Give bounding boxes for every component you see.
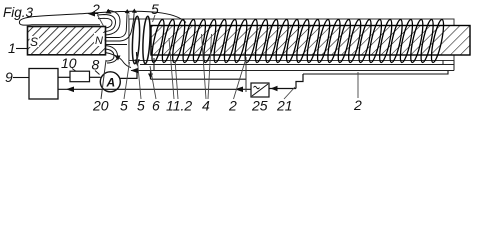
rail right edge xyxy=(453,61,455,71)
resistor 10 xyxy=(70,71,90,82)
winding end turn 5 (hairpin) xyxy=(131,16,140,64)
field lines at N pole bottom xyxy=(105,46,118,64)
svg-text:20: 20 xyxy=(92,98,109,114)
svg-text:11.2: 11.2 xyxy=(166,98,192,114)
field lines at N pole middle xyxy=(105,13,127,38)
wire ammeter right xyxy=(120,71,137,79)
svg-text:5: 5 xyxy=(120,98,128,114)
small up arrows above coil start xyxy=(125,9,130,14)
flux arrow into coil xyxy=(136,52,139,61)
svg-text:21: 21 xyxy=(276,98,293,114)
wire rail W2 xyxy=(131,70,454,72)
core bar (hatched) xyxy=(151,26,470,56)
converter box 25 xyxy=(251,83,269,97)
vertical wire to converter area (leader 2) xyxy=(245,57,247,92)
wire rail W1 xyxy=(140,64,454,66)
winding end turn 5b (hairpin) xyxy=(142,16,151,64)
svg-text:A: A xyxy=(106,76,116,90)
svg-text:2: 2 xyxy=(353,97,362,113)
wire W3 with corner arrow xyxy=(150,71,152,80)
field line big loop over magnet xyxy=(19,11,186,25)
wire rail mid-right xyxy=(303,71,448,75)
winding turns 4 xyxy=(150,19,446,64)
winding end drop right xyxy=(442,60,444,65)
svg-text:5: 5 xyxy=(137,98,145,114)
coil former tube 2 xyxy=(129,19,454,61)
svg-text:Fig.3: Fig.3 xyxy=(3,5,34,20)
svg-text:N: N xyxy=(95,35,103,47)
box 9 xyxy=(29,69,58,100)
svg-text:8: 8 xyxy=(92,57,100,73)
wire resistor to ammeter xyxy=(90,76,101,78)
svg-text:2: 2 xyxy=(228,98,237,114)
field lines at N pole top xyxy=(98,18,112,28)
wire right of box 25 with step xyxy=(269,88,296,90)
svg-text:4: 4 xyxy=(202,98,210,114)
former left edge xyxy=(128,15,130,65)
wire box9 to resistor 10 xyxy=(58,76,70,78)
svg-text:10: 10 xyxy=(61,55,77,71)
svg-text:5: 5 xyxy=(151,1,159,17)
svg-text:25: 25 xyxy=(251,98,268,114)
svg-text:1: 1 xyxy=(8,40,16,56)
svg-text:2: 2 xyxy=(91,1,100,17)
svg-text:S: S xyxy=(30,35,38,49)
bottom wire box9 to converter 25 xyxy=(58,88,251,90)
svg-text:6: 6 xyxy=(152,98,160,114)
ammeter A xyxy=(100,72,120,92)
svg-text:9: 9 xyxy=(5,69,13,85)
magnet body 1 (hatched, S N poles) xyxy=(28,27,106,55)
